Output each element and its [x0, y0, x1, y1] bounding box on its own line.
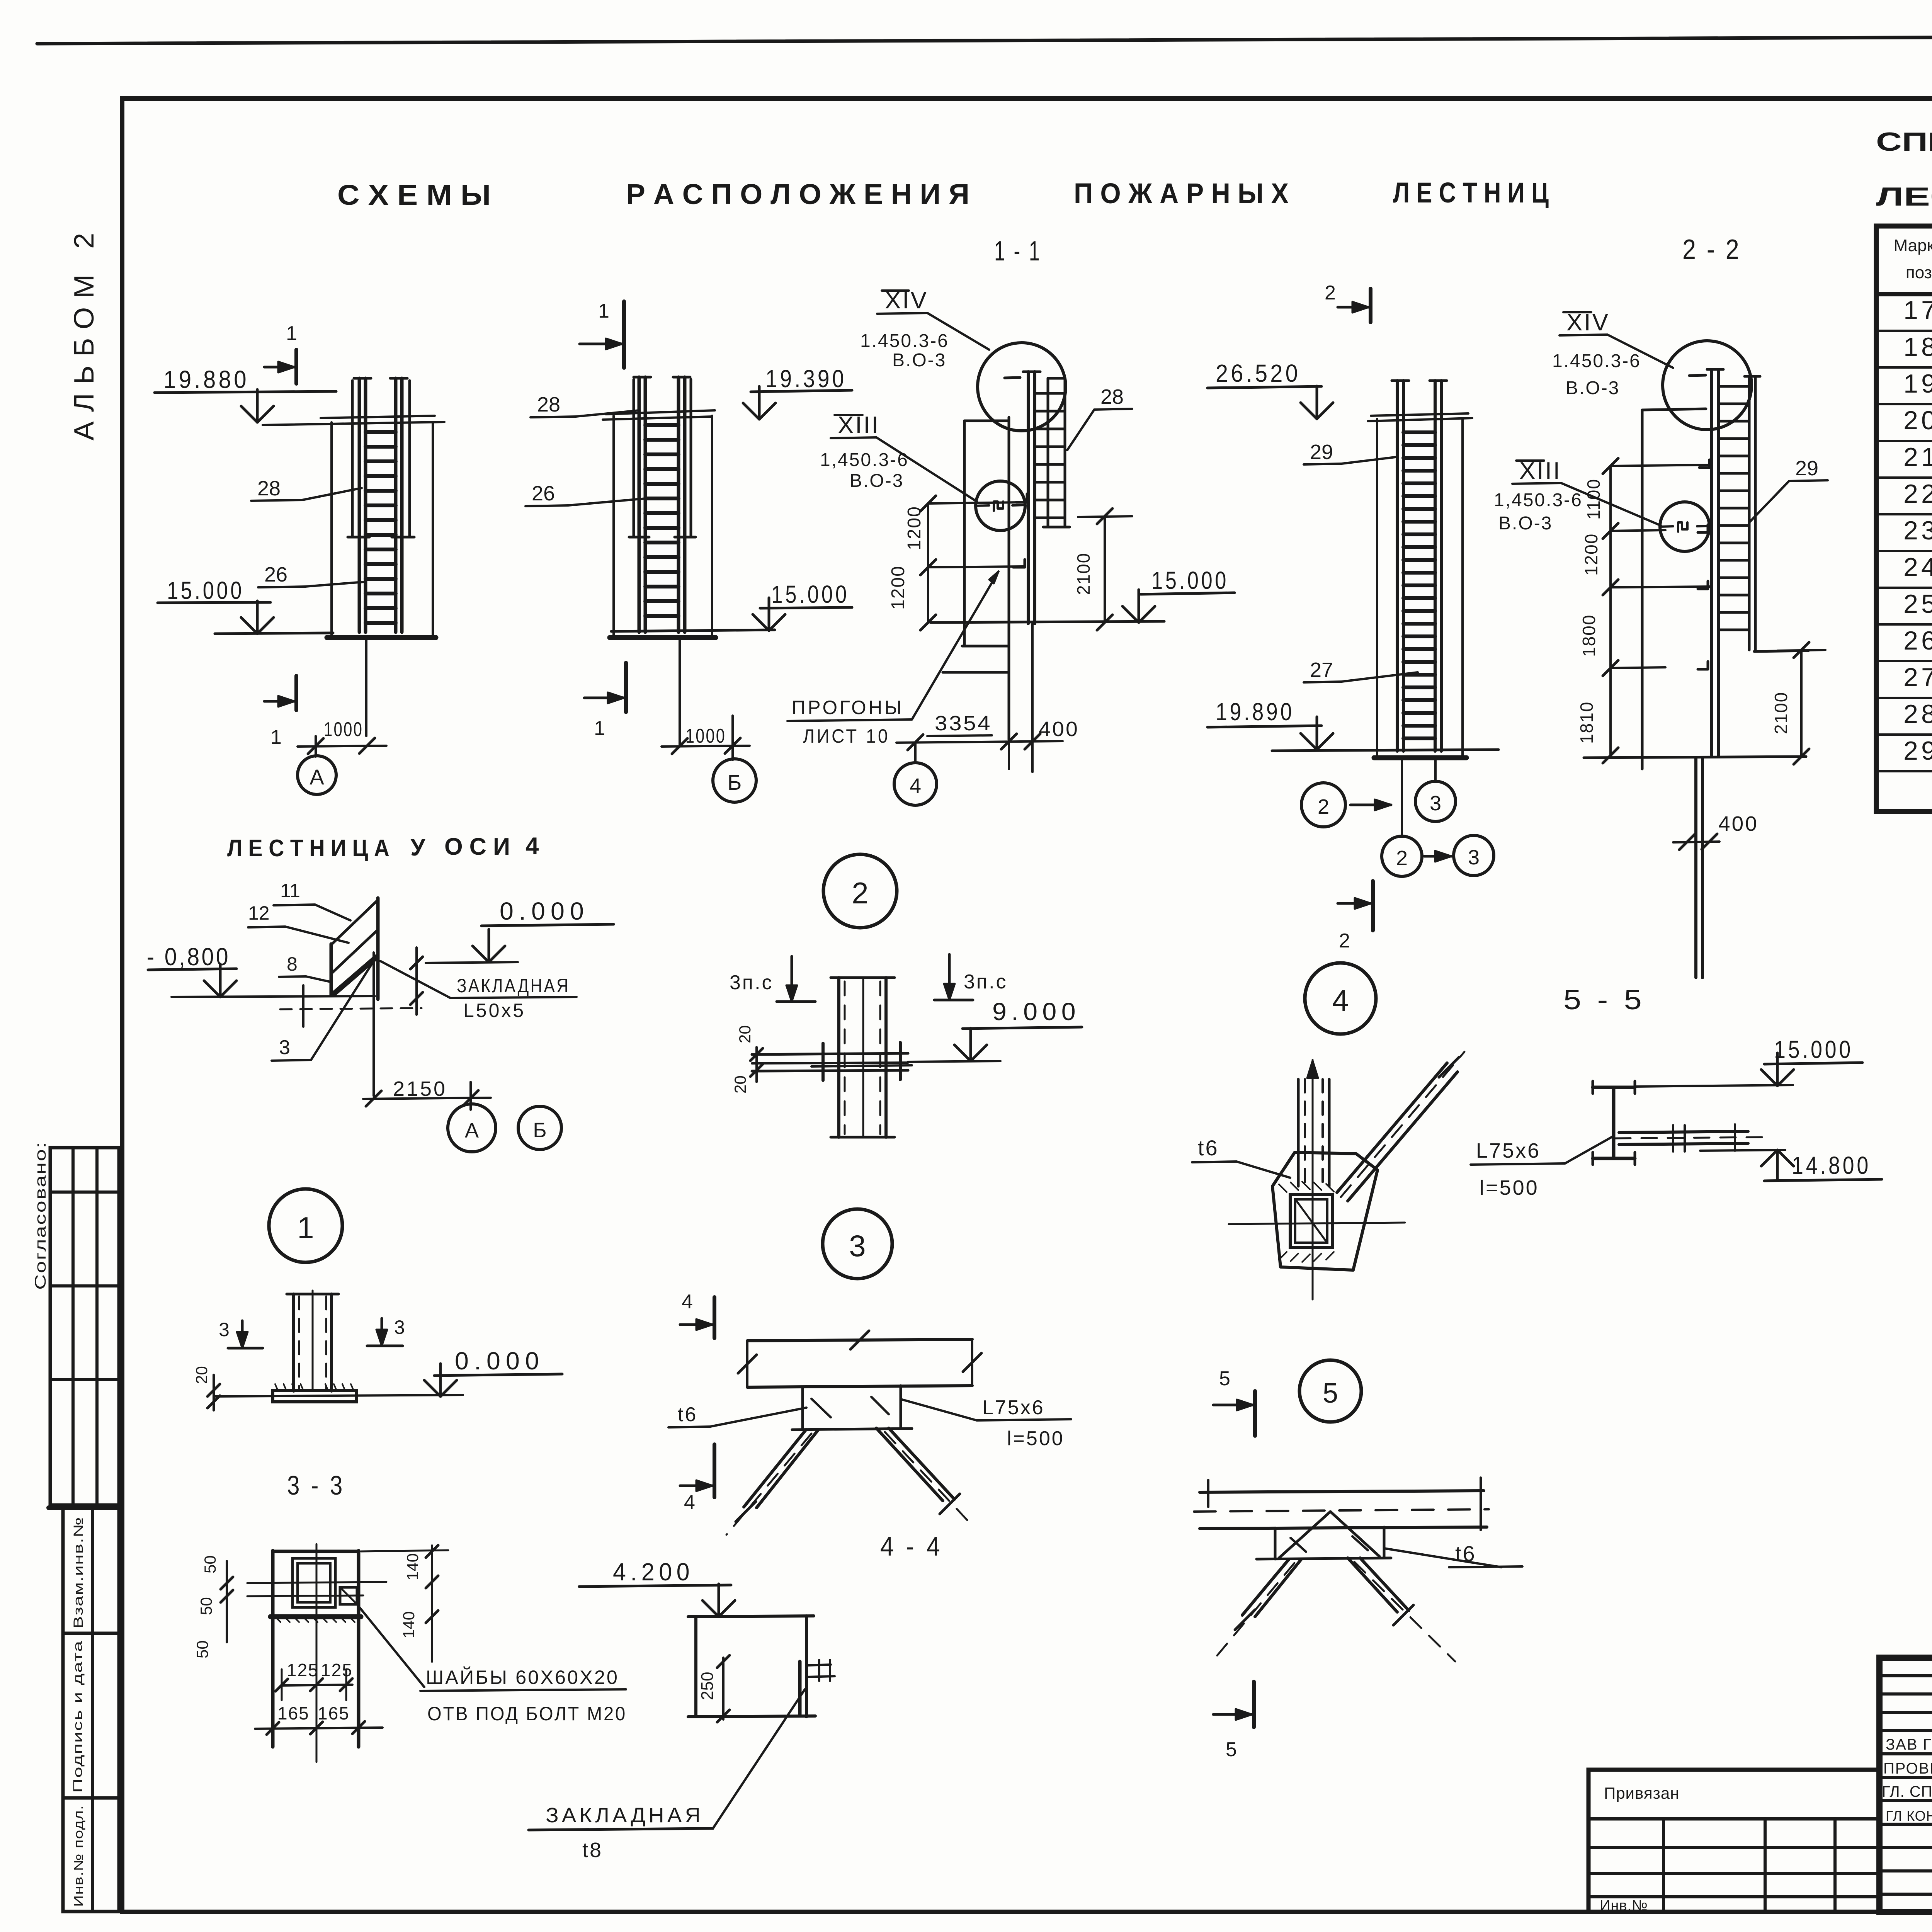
- axis circle A: [298, 756, 336, 794]
- svg-text:1: 1: [286, 322, 297, 345]
- ladder A elevation: [330, 422, 333, 638]
- svg-text:3: 3: [279, 1036, 290, 1059]
- svg-text:3 - 3: 3 - 3: [287, 1470, 345, 1500]
- svg-text:ОТВ ПОД БОЛТ М20: ОТВ ПОД БОЛТ М20: [427, 1703, 627, 1725]
- section 2-2 platform line: [1754, 651, 1808, 651]
- svg-text:А: А: [310, 765, 324, 789]
- svg-text:50: 50: [193, 1640, 211, 1658]
- svg-text:L50x5: L50x5: [463, 1000, 526, 1021]
- svg-text:19.390: 19.390: [765, 365, 847, 393]
- svg-text:1,450.3-6: 1,450.3-6: [1494, 490, 1583, 510]
- node circle 5: [1299, 1360, 1361, 1422]
- svg-text:0.000: 0.000: [455, 1347, 544, 1375]
- node4 gusset plate: [1272, 1152, 1378, 1270]
- section 2-2 ground line: [1584, 757, 1806, 758]
- svg-text:29: 29: [1903, 736, 1932, 765]
- node5 section mark 5 top: [1253, 1391, 1257, 1436]
- svg-text:28: 28: [257, 477, 281, 500]
- svg-text:2: 2: [852, 876, 868, 910]
- svg-text:П О Ж А Р Н Ы Х: П О Ж А Р Н Ы Х: [1074, 177, 1289, 209]
- svg-text:20: 20: [1903, 406, 1932, 435]
- ladder 2-3 axis extensions: [1401, 758, 1403, 835]
- svg-text:Инв.№ подл.: Инв.№ подл.: [71, 1805, 85, 1907]
- node circle 4: [1305, 963, 1376, 1034]
- axon ground line: [172, 996, 375, 997]
- svg-text:L75x6: L75x6: [1476, 1139, 1541, 1162]
- svg-text:4 - 4: 4 - 4: [880, 1531, 943, 1561]
- section 1-1 wall: [963, 421, 966, 646]
- svg-text:1200: 1200: [904, 506, 925, 550]
- svg-text:L75x6: L75x6: [982, 1396, 1045, 1419]
- ladder A section mark 1 bottom: [294, 676, 298, 710]
- node5 braces: [1242, 1559, 1289, 1615]
- svg-text:28: 28: [537, 393, 560, 416]
- axis circle 2 lower: [1382, 836, 1422, 876]
- svg-text:27: 27: [1310, 658, 1333, 682]
- node1 column: [292, 1294, 295, 1391]
- svg-text:t6: t6: [678, 1403, 697, 1426]
- node5 gusset: [1274, 1529, 1277, 1559]
- svg-text:Р А С П О Л О Ж Е Н И Я: Р А С П О Л О Ж Е Н И Я: [626, 178, 969, 210]
- svg-text:15.000: 15.000: [1151, 566, 1229, 594]
- svg-text:140: 140: [403, 1553, 422, 1580]
- svg-text:23: 23: [1903, 516, 1932, 545]
- ladder A axis line: [365, 638, 367, 736]
- section 2-2 dim chain: [1609, 466, 1612, 755]
- svg-text:2100: 2100: [1771, 692, 1791, 734]
- svg-text:2150: 2150: [393, 1077, 447, 1100]
- svg-text:15.000: 15.000: [771, 580, 849, 608]
- node1 base plate: [273, 1390, 357, 1402]
- svg-text:2: 2: [1396, 847, 1408, 870]
- axon dim ticks right: [415, 947, 418, 1015]
- svg-text:1: 1: [594, 717, 605, 740]
- svg-text:0.000: 0.000: [500, 897, 589, 925]
- node4 horizontal axis: [1229, 1223, 1405, 1224]
- svg-text:400: 400: [1718, 812, 1759, 835]
- section 1-1 small circle XIII: [976, 481, 1025, 531]
- svg-text:ПРОГОНЫ: ПРОГОНЫ: [792, 697, 904, 718]
- section 1-1 dim chain: [927, 503, 929, 622]
- node2 beam: [752, 1053, 908, 1054]
- svg-text:50: 50: [201, 1555, 219, 1573]
- svg-text:СПЕЦИФИКАЦИЯ К СХЕМАМ РАСПО: СПЕЦИФИКАЦИЯ К СХЕМАМ РАСПОЛОЖЕНИЯ: [1876, 127, 1932, 156]
- svg-text:1200: 1200: [888, 565, 908, 610]
- inv podl box: [63, 1798, 119, 1912]
- svg-text:20: 20: [736, 1025, 754, 1043]
- svg-text:2: 2: [1318, 795, 1329, 818]
- svg-text:18: 18: [1903, 332, 1932, 362]
- axis circle 3 lower: [1454, 835, 1494, 876]
- svg-text:21: 21: [1903, 442, 1932, 472]
- section 5-5 beam top line: [1635, 1085, 1793, 1087]
- node4 anchor box: [1290, 1194, 1332, 1248]
- svg-text:5: 5: [1323, 1378, 1338, 1409]
- svg-text:4: 4: [910, 774, 921, 798]
- svg-text:26: 26: [1903, 626, 1932, 655]
- svg-text:1000: 1000: [685, 725, 726, 747]
- svg-text:165: 165: [277, 1703, 310, 1723]
- svg-text:Взам.инв.№: Взам.инв.№: [71, 1517, 86, 1629]
- node3 braces: [744, 1430, 806, 1507]
- svg-text:3: 3: [849, 1229, 866, 1263]
- svg-text:400: 400: [1039, 718, 1079, 741]
- ladder 2-3 section mark 2 top: [1369, 289, 1372, 322]
- svg-text:ЛИСТ 10: ЛИСТ 10: [803, 725, 890, 747]
- section 2-2 small circle XIII: [1660, 502, 1709, 551]
- svg-text:1810: 1810: [1577, 701, 1597, 744]
- svg-text:125: 125: [287, 1660, 319, 1680]
- svg-text:50: 50: [197, 1597, 215, 1615]
- svg-text:2 - 2: 2 - 2: [1682, 234, 1741, 265]
- svg-text:29: 29: [1795, 457, 1818, 480]
- svg-text:9.000: 9.000: [992, 998, 1080, 1026]
- privyazan box: [1588, 1770, 1879, 1912]
- podpis data box: [63, 1633, 119, 1798]
- svg-text:140: 140: [400, 1611, 418, 1638]
- title block grid: [1879, 1658, 1932, 1912]
- svg-text:У: У: [410, 834, 426, 861]
- svg-text:29: 29: [1310, 440, 1333, 464]
- outer top edge line: [37, 35, 1932, 44]
- svg-text:Б: Б: [533, 1119, 546, 1142]
- svg-text:1.450.3-6: 1.450.3-6: [1552, 351, 1641, 371]
- svg-text:2100: 2100: [1073, 553, 1094, 595]
- svg-text:3: 3: [219, 1319, 230, 1340]
- svg-text:l=500: l=500: [1007, 1427, 1065, 1450]
- axon plate sketch: [376, 898, 380, 999]
- svg-text:14.800: 14.800: [1792, 1151, 1871, 1179]
- section 5-5 I-beam: [1593, 1086, 1635, 1089]
- svg-text:Согласовано:: Согласовано:: [32, 1141, 49, 1290]
- svg-text:t6: t6: [1198, 1136, 1219, 1160]
- svg-text:12: 12: [248, 902, 270, 924]
- section 2-2 wall: [1641, 410, 1644, 769]
- svg-text:Л Е С Т Н И Ц: Л Е С Т Н И Ц: [1393, 177, 1549, 209]
- svg-text:ЛЕСТНИЦ НА ЛИСТАХ 13 и 14: ЛЕСТНИЦ НА ЛИСТАХ 13 и 14: [1876, 182, 1932, 211]
- svg-text:26: 26: [532, 482, 555, 505]
- svg-text:5: 5: [1226, 1738, 1237, 1761]
- node5 beam: [1200, 1491, 1484, 1492]
- section 1-1 bottom axis lines: [1008, 740, 1010, 769]
- axis circle 2 upper: [1301, 783, 1345, 827]
- section 5-5 strut: [1619, 1131, 1748, 1133]
- svg-text:4: 4: [682, 1291, 693, 1313]
- svg-text:20: 20: [731, 1075, 749, 1094]
- ladder 2-3 elevation: [1376, 419, 1378, 757]
- svg-text:3п.с: 3п.с: [964, 971, 1008, 993]
- axis circle B: [713, 759, 756, 802]
- svg-text:ГЛ КОНС: ГЛ КОНС: [1886, 1808, 1932, 1824]
- node circle 2: [823, 854, 897, 928]
- svg-text:1100: 1100: [1583, 478, 1604, 520]
- svg-text:ШАЙБЫ 60X60X20: ШАЙБЫ 60X60X20: [426, 1666, 619, 1688]
- ladder B elevation: [612, 416, 615, 638]
- svg-text:22: 22: [1903, 479, 1932, 509]
- svg-text:25: 25: [1903, 589, 1932, 619]
- node2 column: [837, 978, 840, 1137]
- axis circle 3 upper: [1415, 781, 1456, 821]
- svg-text:5: 5: [1219, 1367, 1230, 1390]
- svg-text:20: 20: [192, 1366, 211, 1384]
- svg-text:2: 2: [1325, 282, 1336, 304]
- node circle 1: [269, 1189, 342, 1262]
- svg-text:19.890: 19.890: [1216, 698, 1294, 726]
- section 1-1 big circle XIV: [978, 343, 1066, 431]
- ladder B section mark 1 top: [622, 301, 626, 368]
- section 2-2 dim 2100: [1800, 650, 1803, 757]
- section 2-2 lower stremyanka: [1694, 758, 1697, 978]
- section 1-1 ladder: [1027, 372, 1030, 624]
- axon center line: [372, 952, 375, 1096]
- svg-text:t8: t8: [582, 1838, 603, 1862]
- ladder 2-3 ground line: [1272, 750, 1498, 751]
- svg-text:Б: Б: [728, 770, 742, 794]
- ladder B axis line: [679, 638, 681, 745]
- svg-text:17: 17: [1903, 296, 1932, 325]
- sign-off box grid: [50, 1148, 119, 1505]
- svg-text:8: 8: [287, 953, 298, 975]
- svg-text:27: 27: [1903, 663, 1932, 692]
- svg-text:ЗАКЛАДНАЯ: ЗАКЛАДНАЯ: [457, 975, 570, 997]
- svg-text:В.О-3: В.О-3: [1566, 378, 1620, 398]
- svg-text:28: 28: [1903, 699, 1932, 729]
- node4 column axis: [1312, 1060, 1314, 1299]
- svg-text:ГЛ. СПЕЦ: ГЛ. СПЕЦ: [1882, 1783, 1932, 1800]
- svg-text:165: 165: [318, 1703, 350, 1723]
- node3 gusset: [801, 1387, 804, 1430]
- svg-text:ЗАКЛАДНАЯ: ЗАКЛАДНАЯ: [546, 1804, 704, 1827]
- svg-text:1: 1: [270, 726, 282, 748]
- svg-text:ЗАВ ГР: ЗАВ ГР: [1886, 1736, 1932, 1753]
- section 2-2 bracket marks: [1699, 460, 1709, 468]
- svg-text:5 - 5: 5 - 5: [1563, 985, 1645, 1015]
- node4 hatch marks: [1279, 1184, 1287, 1192]
- svg-text:Л Е С Т Н И Ц А: Л Е С Т Н И Ц А: [227, 835, 389, 862]
- svg-text:26: 26: [264, 563, 287, 586]
- section 1-1 axis circle 4: [894, 763, 937, 805]
- ladder B section mark 1 bottom: [624, 663, 628, 712]
- svg-text:1 - 1: 1 - 1: [994, 236, 1041, 267]
- svg-text:2: 2: [1339, 930, 1350, 952]
- section 1-1 ground line: [930, 621, 1164, 622]
- svg-text:4: 4: [526, 833, 539, 859]
- svg-text:В.О-3: В.О-3: [1498, 513, 1553, 534]
- svg-text:С Х Е М Ы: С Х Е М Ы: [337, 179, 491, 211]
- svg-text:19.880: 19.880: [163, 366, 249, 393]
- section 2-2 big circle XIV: [1663, 341, 1752, 430]
- section 2-2 ladder: [1710, 369, 1713, 755]
- svg-text:1200: 1200: [1581, 533, 1601, 576]
- svg-text:1: 1: [598, 300, 609, 322]
- svg-text:15.000: 15.000: [1774, 1036, 1853, 1063]
- svg-text:1: 1: [297, 1211, 314, 1245]
- svg-text:4: 4: [1332, 983, 1349, 1017]
- vzam inv box: [63, 1508, 119, 1633]
- svg-text:19: 19: [1903, 369, 1932, 398]
- svg-text:- 0,800: - 0,800: [147, 943, 230, 971]
- svg-text:1.450.3-6: 1.450.3-6: [860, 331, 949, 351]
- svg-text:ПРОВЕР: ПРОВЕР: [1883, 1760, 1932, 1777]
- svg-text:1,450.3-6: 1,450.3-6: [820, 450, 909, 470]
- svg-text:26.520: 26.520: [1216, 359, 1301, 387]
- svg-text:4: 4: [684, 1491, 695, 1514]
- svg-text:В.О-3: В.О-3: [850, 471, 904, 491]
- axis circle B small: [518, 1106, 561, 1150]
- detail 3-3 plate plan: [271, 1551, 275, 1747]
- section 1-1 dim 2100: [1104, 516, 1106, 622]
- node circle 3: [823, 1209, 892, 1279]
- svg-text:Привязан: Привязан: [1604, 1784, 1679, 1802]
- svg-text:А: А: [465, 1119, 479, 1142]
- svg-text:3: 3: [1468, 846, 1480, 869]
- svg-text:250: 250: [698, 1672, 717, 1700]
- svg-text:3п.с: 3п.с: [730, 971, 774, 994]
- svg-text:АЛЬБОМ 2: АЛЬБОМ 2: [69, 224, 100, 440]
- spec table grid: [1876, 226, 1932, 811]
- svg-text:15.000: 15.000: [167, 577, 244, 604]
- svg-text:3: 3: [1430, 792, 1441, 815]
- svg-text:Подпись и дата: Подпись и дата: [71, 1640, 85, 1793]
- ladder A section mark 1 top: [294, 350, 298, 384]
- svg-text:3354: 3354: [935, 712, 992, 735]
- node3 beam: [747, 1339, 972, 1341]
- svg-text:О С И: О С И: [444, 833, 510, 860]
- svg-text:1000: 1000: [324, 718, 363, 741]
- svg-text:3: 3: [394, 1316, 405, 1338]
- svg-text:l=500: l=500: [1480, 1176, 1539, 1199]
- axis circle A small: [448, 1104, 496, 1152]
- svg-text:Инв.№: Инв.№: [1600, 1898, 1648, 1914]
- svg-text:Марка,: Марка,: [1894, 236, 1932, 255]
- ladder 2-3 section mark 2 bottom: [1371, 881, 1375, 930]
- axon dashed line: [280, 1008, 422, 1009]
- svg-text:11: 11: [280, 880, 300, 901]
- svg-text:28: 28: [1100, 385, 1124, 408]
- svg-text:4.200: 4.200: [613, 1558, 694, 1586]
- svg-text:поз.: поз.: [1906, 263, 1932, 282]
- svg-text:125: 125: [321, 1660, 353, 1680]
- node4 brace: [1337, 1063, 1447, 1192]
- svg-text:24: 24: [1903, 553, 1932, 582]
- svg-text:1800: 1800: [1579, 614, 1599, 657]
- detail 3-3 hatching: [275, 1617, 281, 1622]
- detail 4-4 body: [688, 1616, 814, 1617]
- svg-text:В.О-3: В.О-3: [892, 350, 946, 371]
- node5 section mark 5 bottom: [1252, 1682, 1256, 1727]
- section 1-1 bracket marks: [1016, 494, 1027, 502]
